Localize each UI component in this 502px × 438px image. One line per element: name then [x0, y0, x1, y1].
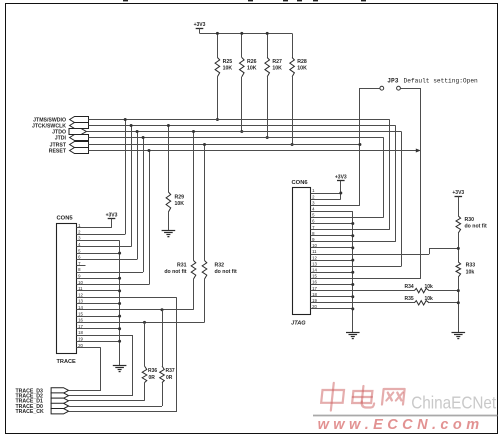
svg-text:12: 12	[312, 255, 317, 260]
svg-text:R36: R36	[148, 368, 157, 374]
svg-text:CON6: CON6	[292, 180, 309, 186]
svg-text:10K: 10K	[272, 66, 282, 72]
svg-text:0R: 0R	[166, 375, 173, 381]
svg-text:w w w . E C C N . c o m: w w w . E C C N . c o m	[318, 417, 480, 433]
svg-text:10k: 10k	[466, 269, 475, 275]
svg-text:R26: R26	[247, 59, 257, 65]
svg-text:10K: 10K	[247, 66, 257, 72]
svg-text:TRACE_CK: TRACE_CK	[16, 409, 44, 415]
svg-text:JTAG: JTAG	[291, 320, 306, 326]
svg-text:16: 16	[78, 318, 83, 323]
svg-text:do not fit: do not fit	[164, 269, 186, 275]
svg-text:R31: R31	[177, 262, 187, 268]
svg-text:20: 20	[312, 304, 317, 309]
svg-text:R35: R35	[405, 296, 414, 302]
svg-text:R37: R37	[166, 368, 175, 374]
svg-text:12: 12	[78, 292, 83, 297]
svg-text:TRACE: TRACE	[57, 359, 77, 365]
svg-text:19: 19	[78, 337, 83, 342]
svg-text:14: 14	[78, 305, 83, 310]
svg-text:R27: R27	[272, 59, 282, 65]
svg-text:do not fit: do not fit	[465, 224, 487, 230]
svg-text:JP3: JP3	[387, 77, 398, 84]
svg-text:10K: 10K	[223, 66, 233, 72]
svg-text:+3V3: +3V3	[335, 175, 347, 181]
svg-text:13: 13	[78, 299, 83, 304]
svg-text:13: 13	[312, 261, 317, 266]
svg-text:10k: 10k	[425, 284, 434, 290]
svg-text:18: 18	[78, 330, 83, 335]
svg-text:R32: R32	[215, 262, 225, 268]
svg-text:14: 14	[312, 268, 317, 273]
svg-text:+3V3: +3V3	[106, 212, 118, 218]
svg-text:11: 11	[78, 286, 83, 291]
svg-text:CON5: CON5	[57, 216, 74, 222]
svg-text:R28: R28	[297, 59, 307, 65]
svg-text:R34: R34	[405, 284, 414, 290]
svg-text:17: 17	[312, 286, 317, 291]
svg-text:JTDI: JTDI	[55, 135, 67, 141]
svg-text:16: 16	[312, 280, 317, 285]
svg-text:Default setting:Open: Default setting:Open	[404, 77, 479, 84]
svg-text:R29: R29	[175, 194, 185, 200]
svg-text:10: 10	[312, 243, 317, 248]
svg-text:17: 17	[78, 324, 83, 329]
svg-text:19: 19	[312, 298, 317, 303]
svg-text:10K: 10K	[175, 201, 185, 207]
svg-text:do not fit: do not fit	[215, 269, 237, 275]
svg-text:10K: 10K	[297, 66, 307, 72]
svg-text:0R: 0R	[149, 375, 156, 381]
svg-text:10: 10	[78, 280, 83, 285]
svg-text:RESET: RESET	[49, 148, 67, 154]
svg-text:15: 15	[312, 274, 317, 279]
svg-text:18: 18	[312, 292, 317, 297]
svg-text:R30: R30	[465, 217, 475, 223]
svg-text:+3V3: +3V3	[194, 22, 206, 28]
svg-text:R25: R25	[223, 59, 233, 65]
svg-text:20: 20	[78, 343, 83, 348]
svg-text:+3V3: +3V3	[452, 190, 464, 196]
svg-text:15: 15	[78, 311, 83, 316]
svg-text:R33: R33	[466, 263, 476, 269]
svg-text:11: 11	[312, 249, 317, 254]
svg-text:10k: 10k	[425, 296, 434, 302]
svg-text:ChinaECNet: ChinaECNet	[411, 392, 496, 412]
